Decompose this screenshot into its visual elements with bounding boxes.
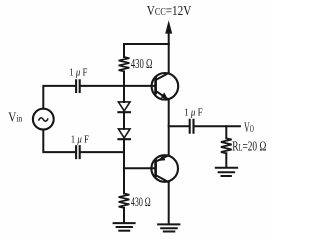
wire: RL top lead bbox=[225, 126, 227, 138]
svg-text:1 μ F: 1 μ F bbox=[184, 107, 203, 118]
capacitor C3 bbox=[190, 120, 194, 133]
svg-text:VCC=12V: VCC=12V bbox=[147, 4, 192, 19]
diode D2 bbox=[118, 129, 130, 139]
diode D1 bbox=[118, 102, 130, 112]
ground G1 bbox=[114, 223, 135, 231]
wire: top rail from R1 branch to VCC line bbox=[124, 43, 169, 45]
wire: Q2 base wire bbox=[124, 167, 156, 169]
wire: D2 down through C2 node to R2 bbox=[123, 139, 125, 193]
wire: Vin top lead to C1 bbox=[43, 86, 75, 109]
ground G3 bbox=[216, 168, 237, 176]
wire: D1 to D2 bbox=[123, 112, 125, 129]
wire: output node to C3 bbox=[169, 125, 189, 127]
svg-text:430 Ω: 430 Ω bbox=[131, 194, 151, 209]
svg-text:1 μ F: 1 μ F bbox=[71, 134, 89, 145]
resistor R1 430ohm bbox=[119, 57, 130, 71]
wire: Q2 collector to ground G2 bbox=[168, 182, 170, 224]
wire: RL to ground G3 bbox=[225, 153, 227, 167]
wire: C3 to Vo terminal bbox=[195, 125, 240, 127]
wire: bias chain node A to D1 bbox=[123, 86, 125, 102]
wire: R1 bottom lead to Q1 base node bbox=[123, 71, 125, 86]
VCC supply arrow bbox=[165, 20, 172, 44]
wire: R2 to ground G1 bbox=[123, 208, 125, 223]
svg-text:1 μ F: 1 μ F bbox=[69, 67, 87, 78]
wire: C2 to diode chain node bbox=[81, 151, 124, 153]
transistor Q2 PNP bbox=[151, 155, 178, 182]
wire: Q1 emitter down to Q2 emitter (output rail) bbox=[168, 100, 170, 156]
svg-text:RL=20 Ω: RL=20 Ω bbox=[232, 139, 266, 154]
wire: VCC line down to Q1 collector bbox=[168, 44, 170, 73]
resistor RL bbox=[221, 138, 232, 153]
source Vin AC bbox=[33, 109, 54, 130]
resistor R2 430ohm bbox=[119, 194, 130, 208]
svg-text:430 Ω: 430 Ω bbox=[131, 56, 153, 71]
wire: Vin bottom lead to C2 bbox=[43, 130, 75, 152]
capacitor C1 bbox=[76, 80, 80, 92]
wire: C1 to Q1 base bbox=[81, 85, 156, 87]
transistor Q1 NPN bbox=[152, 73, 179, 100]
capacitor C2 bbox=[76, 146, 80, 158]
ground G2 bbox=[158, 224, 179, 231]
wire: R1 top lead bbox=[123, 44, 125, 57]
